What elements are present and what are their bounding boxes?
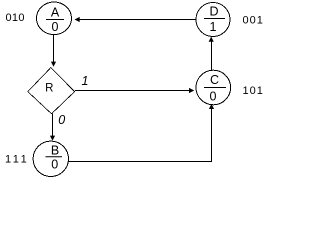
wire R to B [52, 114, 54, 138]
svg-text:0: 0 [51, 158, 58, 172]
wire C to D [211, 41, 213, 70]
svg-text:001: 001 [243, 15, 264, 27]
wire A to R [53, 35, 55, 64]
svg-text:D: D [209, 5, 218, 19]
arrowhead into D bottom [209, 37, 214, 42]
arrowhead into A [75, 17, 80, 22]
svg-text:C: C [210, 73, 219, 87]
wire D to A [77, 19, 196, 21]
fraction bar in A [46, 19, 64, 21]
state circle B [33, 141, 68, 176]
svg-text:B: B [51, 144, 59, 158]
wire R to C [75, 90, 191, 92]
wire B right then up to C [69, 108, 212, 162]
arrowhead into B top [50, 136, 55, 141]
svg-text:1: 1 [210, 20, 217, 34]
fraction bar in B [46, 156, 63, 158]
svg-text:0: 0 [210, 90, 217, 104]
fraction bar in C [204, 87, 226, 89]
fraction bar in D [204, 18, 225, 20]
state circle A [37, 2, 72, 35]
svg-text:0: 0 [58, 113, 65, 127]
svg-text:1: 1 [82, 74, 89, 88]
svg-text:A: A [51, 6, 60, 20]
svg-text:101: 101 [243, 85, 264, 97]
state circle D [196, 3, 230, 37]
arrowhead into C bottom [209, 104, 214, 109]
svg-text:0: 0 [52, 20, 59, 34]
decision diamond R [28, 68, 75, 114]
arrowhead into C left [189, 88, 194, 93]
svg-text:010: 010 [6, 12, 25, 24]
state circle C [196, 70, 231, 105]
arrowhead into diamond R [51, 62, 56, 67]
svg-text:R: R [45, 83, 53, 95]
svg-text:111: 111 [5, 154, 29, 166]
